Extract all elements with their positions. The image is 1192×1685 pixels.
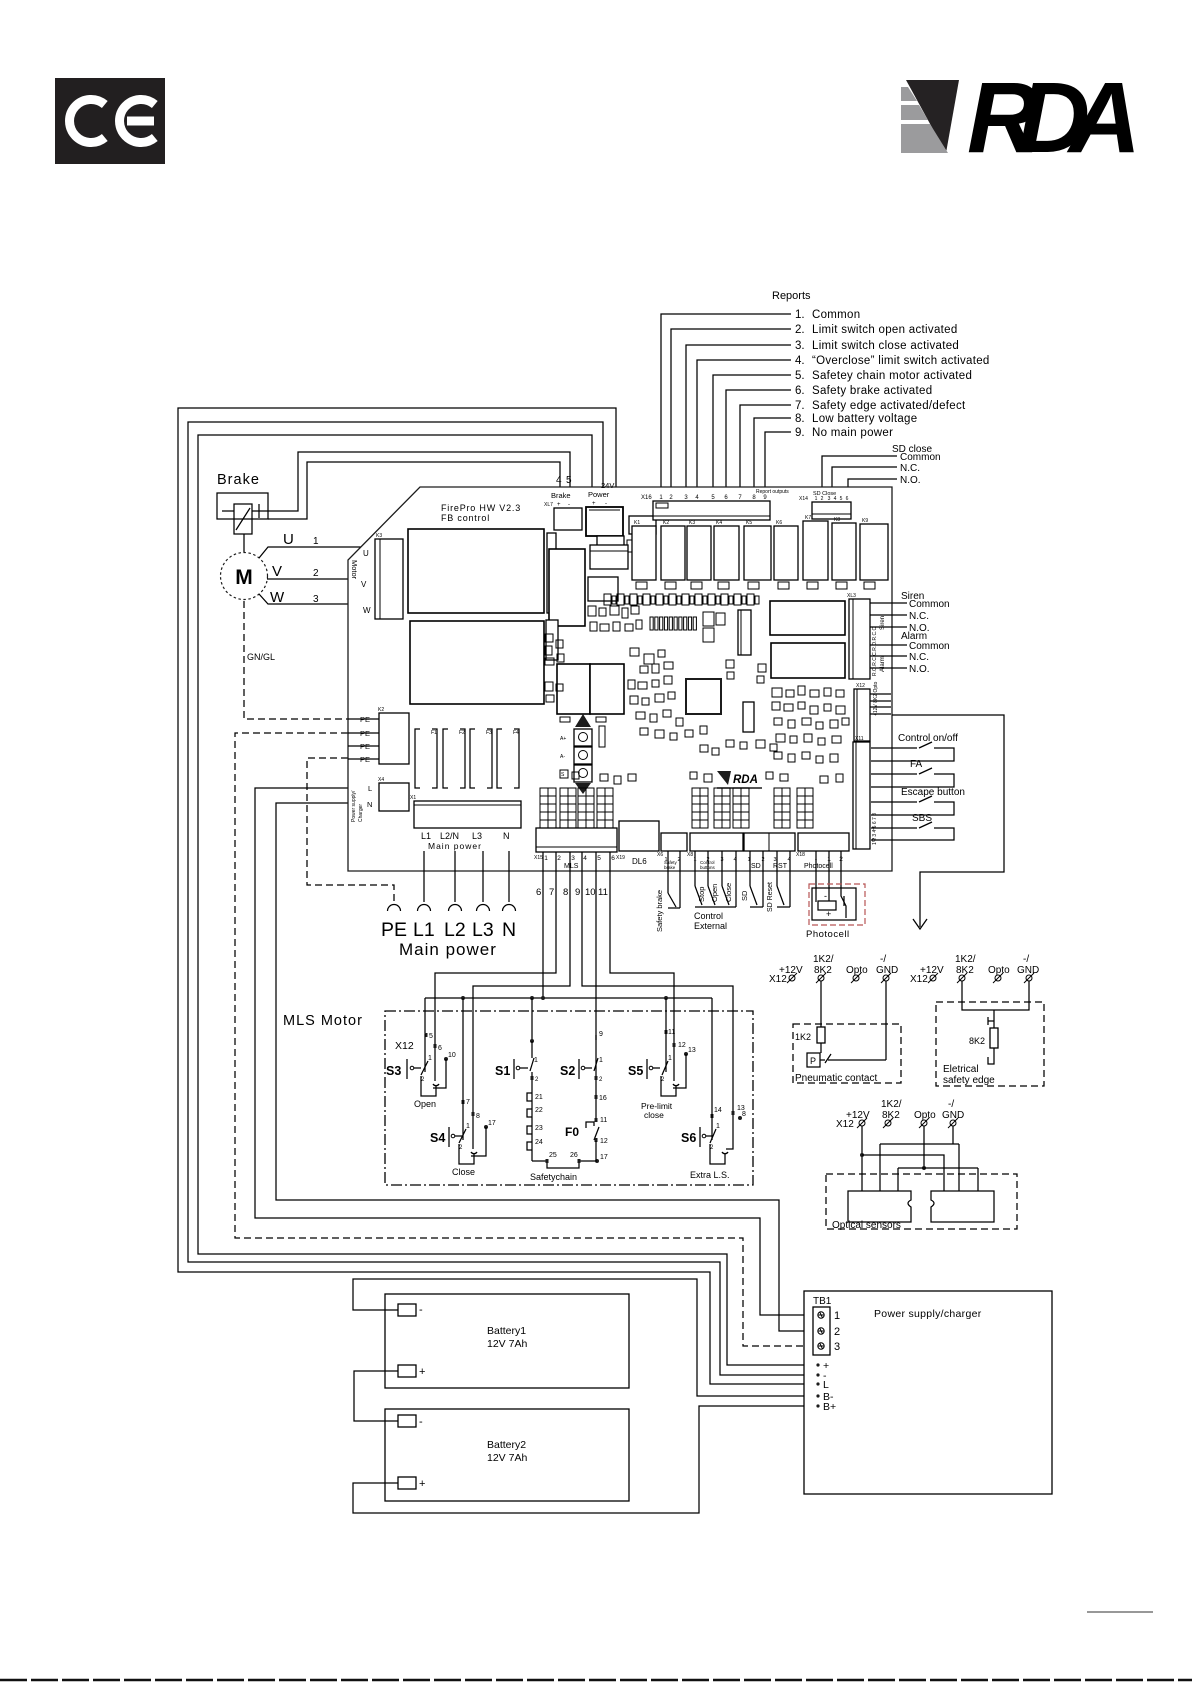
- svg-text:Open: Open: [414, 1099, 436, 1109]
- wire L board to TB1 pin1: [255, 788, 813, 1315]
- svg-text:22: 22: [535, 1107, 543, 1114]
- XL3 connector: [849, 599, 870, 679]
- svg-text:Control on/off: Control on/off: [898, 733, 958, 744]
- pneumatic terminal X12: [789, 975, 795, 981]
- drop to S3 pin10: [462, 998, 464, 1059]
- header J2: [743, 702, 754, 732]
- svg-text:“Overclose” limit switch activ: “Overclose” limit switch activated: [812, 355, 990, 367]
- X12 stub Opto: [870, 706, 891, 708]
- svg-text:9: 9: [599, 1031, 603, 1038]
- transformer T1: [408, 529, 544, 613]
- header ladder strips: [540, 788, 556, 828]
- svg-text:Open: Open: [710, 884, 719, 902]
- svg-text:U: U: [363, 549, 369, 558]
- svg-text:Limit switch open activated: Limit switch open activated: [812, 324, 958, 336]
- photocell relay: [818, 901, 836, 910]
- svg-text:MLS: MLS: [564, 863, 579, 870]
- svg-text:TB1: TB1: [813, 1296, 832, 1307]
- X6 safety brake connector: [661, 833, 687, 851]
- brake to motor link: [243, 534, 245, 553]
- PSU terminal B+: [816, 1404, 819, 1407]
- svg-text:L3: L3: [472, 919, 494, 941]
- svg-text:Power supply/: Power supply/: [351, 790, 357, 822]
- svg-text:K3: K3: [689, 520, 695, 526]
- svg-text:close: close: [644, 1110, 664, 1120]
- svg-text:Common: Common: [812, 309, 860, 321]
- svg-text:2: 2: [834, 1326, 840, 1338]
- CE letter E: [120, 100, 155, 143]
- svg-text:5.: 5.: [795, 370, 805, 382]
- svg-text:1: 1: [544, 855, 548, 862]
- capacitor C12: [546, 620, 558, 660]
- svg-text:X12: X12: [910, 974, 928, 985]
- pneumatic dashed box: [793, 1024, 901, 1083]
- svg-text:X12: X12: [769, 974, 787, 985]
- svg-text:A+: A+: [560, 736, 566, 742]
- junction dot 666: [664, 996, 668, 1000]
- header J1: [738, 610, 751, 655]
- svg-text:2: 2: [313, 568, 319, 579]
- control wire Stop: [694, 851, 696, 886]
- svg-text:Motor: Motor: [350, 560, 359, 580]
- svg-text:11: 11: [668, 1029, 675, 1036]
- button SW2: [574, 747, 592, 764]
- svg-text:1K2: 1K2: [795, 1032, 811, 1042]
- RDA logo gray stripe 3: [901, 124, 948, 153]
- svg-text:S6: S6: [681, 1131, 696, 1145]
- svg-text:9: 9: [575, 887, 580, 898]
- svg-text:K2: K2: [663, 520, 669, 526]
- svg-text:B+: B+: [823, 1401, 836, 1413]
- svg-text:6: 6: [611, 855, 615, 862]
- photocell black box: [812, 888, 856, 920]
- svg-text:XL7: XL7: [544, 502, 553, 508]
- svg-text:L1: L1: [421, 831, 431, 841]
- svg-text:X14: X14: [799, 496, 808, 502]
- svg-text:3: 3: [834, 1341, 840, 1353]
- svg-text:-: -: [824, 891, 827, 901]
- svg-text:2: 2: [421, 1077, 425, 1083]
- capacitor C9: [807, 582, 818, 589]
- relay K5: [744, 526, 771, 580]
- svg-text:12: 12: [600, 1138, 608, 1145]
- TB1 pin 1: [818, 1312, 824, 1318]
- svg-text:GN/GL: GN/GL: [247, 652, 275, 662]
- svg-text:Optical sensors: Optical sensors: [832, 1220, 901, 1231]
- edge terminal Opto: [995, 975, 1001, 981]
- svg-text:X12: X12: [836, 1119, 854, 1130]
- svg-text:8K2: 8K2: [969, 1036, 985, 1046]
- svg-text:Escape button: Escape button: [901, 787, 965, 798]
- optical dashed box: [826, 1174, 1017, 1229]
- RDA logo gray stripe 2: [901, 105, 928, 120]
- svg-text:K9: K9: [862, 518, 868, 524]
- pneumatic wire to GND: [828, 1059, 886, 1061]
- svg-text:V: V: [272, 563, 282, 580]
- svg-text:N: N: [502, 919, 516, 941]
- CE mark box: [55, 78, 165, 164]
- TB1 connector: [813, 1307, 830, 1355]
- svg-text:Safetychain: Safetychain: [530, 1172, 577, 1182]
- svg-text:9.: 9.: [795, 427, 805, 439]
- report item 4. wire: [697, 360, 791, 494]
- relay K3: [687, 526, 711, 580]
- edge terminal 8K2: [959, 975, 965, 981]
- svg-text:-: -: [419, 1304, 423, 1316]
- alarm Common wire: [870, 644, 907, 646]
- battery1 minus wire to B-: [353, 1279, 816, 1396]
- GN/GL earth wire motor to PE1: [244, 601, 348, 719]
- K2 PE connector: [379, 713, 409, 764]
- svg-text:brake: brake: [664, 865, 676, 870]
- relay K12 alarm: [771, 643, 845, 678]
- svg-text:K7: K7: [805, 515, 811, 521]
- svg-text:8: 8: [563, 887, 568, 898]
- svg-text:13: 13: [688, 1047, 696, 1054]
- svg-text:SD Reset: SD Reset: [767, 882, 774, 912]
- IC U3: [588, 577, 618, 601]
- svg-text:1: 1: [834, 1310, 840, 1322]
- report item 2. wire: [671, 329, 791, 494]
- terminal arc 483: [477, 905, 490, 911]
- svg-text:A-: A-: [560, 754, 565, 760]
- svg-text:14: 14: [714, 1107, 722, 1114]
- battery series link: [354, 1371, 398, 1421]
- MLS wire 8: [473, 852, 570, 1112]
- svg-text:Main power: Main power: [428, 841, 482, 851]
- edge wire 8K2: [962, 981, 1029, 1010]
- wire 1 PSU L to 24V power: [178, 408, 816, 1384]
- pneumatic terminal GND: [883, 975, 889, 981]
- junction dot 543: [541, 996, 545, 1000]
- svg-text:Extra L.S.: Extra L.S.: [690, 1170, 730, 1180]
- svg-text:25: 25: [549, 1152, 557, 1159]
- svg-text:10: 10: [585, 887, 596, 898]
- Battery1 minus terminal: [398, 1304, 416, 1316]
- wire V motor: [267, 578, 376, 580]
- fuse F1: [415, 729, 420, 788]
- transformer T2: [410, 621, 544, 704]
- drop to S3 pin5: [424, 998, 426, 1034]
- Battery1 box: [385, 1294, 629, 1388]
- motor connector X5: [375, 539, 403, 619]
- svg-text:Alarm: Alarm: [880, 656, 886, 672]
- svg-text:K4: K4: [716, 520, 722, 526]
- svg-text:6: 6: [438, 1045, 442, 1052]
- wire main power 483: [482, 851, 484, 902]
- svg-text:5: 5: [566, 475, 572, 486]
- svg-text:X1: X1: [410, 795, 416, 801]
- capacitor C1: [597, 536, 624, 554]
- wire 3 PSU plus to 24V power: [198, 435, 816, 1365]
- svg-text:N.C.: N.C.: [900, 463, 920, 474]
- svg-text:DL6: DL6: [632, 857, 647, 866]
- svg-text:2: 2: [535, 1077, 539, 1083]
- terminal arc 424: [418, 905, 431, 911]
- svg-text:Close: Close: [452, 1167, 475, 1177]
- svg-text:-/: -/: [948, 1099, 954, 1110]
- svg-text:Safety edge activated/defect: Safety edge activated/defect: [812, 400, 966, 412]
- svg-text:5: 5: [429, 1033, 433, 1040]
- svg-text:K6: K6: [776, 520, 782, 526]
- svg-text:6.: 6.: [795, 385, 805, 397]
- svg-text:Common: Common: [900, 452, 941, 463]
- svg-text:-/: -/: [1023, 954, 1029, 965]
- edge terminal GND: [1026, 975, 1032, 981]
- optical Opto wire: [923, 1126, 925, 1168]
- svg-text:-: -: [419, 1416, 423, 1428]
- CE letter C: [70, 100, 105, 143]
- svg-text:1: 1: [428, 1055, 432, 1062]
- svg-text:2: 2: [821, 496, 824, 502]
- svg-text:GND: GND: [876, 965, 898, 976]
- svg-text:PE: PE: [360, 729, 370, 738]
- svg-text:1: 1: [815, 496, 818, 502]
- capacitor C2: [629, 516, 656, 534]
- svg-text:-: -: [568, 502, 570, 508]
- report item 6. wire: [726, 390, 791, 494]
- svg-text:N.O.: N.O.: [909, 664, 930, 675]
- svg-text:1.: 1.: [795, 309, 805, 321]
- relay K9: [860, 524, 888, 580]
- capacitor C7: [748, 582, 759, 589]
- svg-text:5: 5: [840, 496, 843, 502]
- svg-text:F2: F2: [459, 730, 465, 736]
- footer small line: [1087, 1611, 1153, 1613]
- svg-text:Photocell: Photocell: [806, 929, 850, 940]
- svg-text:21: 21: [535, 1094, 543, 1101]
- svg-text:P: P: [810, 1056, 816, 1066]
- svg-text:N: N: [367, 800, 372, 809]
- svg-text:FB control: FB control: [441, 513, 490, 523]
- control common wire: [735, 851, 737, 907]
- relay K2: [661, 526, 685, 580]
- svg-text:S2: S2: [560, 1064, 575, 1078]
- Battery2 minus terminal: [398, 1415, 416, 1427]
- junction dot 463: [461, 996, 465, 1000]
- drop to S1: [531, 998, 533, 1040]
- SD close N.C. wire: [832, 467, 897, 501]
- relay K4: [714, 526, 739, 580]
- relay K6: [774, 526, 798, 580]
- RDA logo gray stripe 1: [901, 87, 917, 101]
- svg-text:4: 4: [556, 475, 562, 486]
- PE pin 3: [348, 745, 379, 747]
- PE pin 4: [348, 758, 379, 760]
- svg-text:PE: PE: [360, 755, 370, 764]
- svg-text:Report outputs: Report outputs: [756, 489, 789, 495]
- svg-text:RDA: RDA: [733, 774, 758, 786]
- terminal arc 509: [503, 905, 516, 911]
- transformer T3: [557, 664, 590, 714]
- svg-text:SD: SD: [740, 890, 749, 901]
- svg-text:17: 17: [600, 1154, 608, 1161]
- PSU terminal L: [816, 1382, 819, 1385]
- svg-text:5: 5: [597, 855, 601, 862]
- svg-text:X6: X6: [657, 852, 663, 858]
- svg-text:V: V: [361, 580, 367, 589]
- svg-text:GND: GND: [1017, 965, 1039, 976]
- svg-text:4: 4: [583, 855, 587, 862]
- svg-text:2: 2: [599, 1077, 603, 1083]
- svg-text:F4: F4: [513, 730, 519, 736]
- svg-text:1: 1: [716, 1123, 720, 1130]
- svg-text:+: +: [826, 909, 831, 919]
- svg-text:F1: F1: [431, 730, 437, 736]
- svg-text:S3: S3: [386, 1064, 401, 1078]
- resistor 8K2: [990, 1028, 998, 1048]
- svg-text:8.: 8.: [795, 413, 805, 425]
- svg-text:+: +: [557, 502, 561, 508]
- optical terminal 8K2: [885, 1120, 891, 1126]
- svg-text:N.O.: N.O.: [900, 475, 921, 486]
- svg-text:7: 7: [549, 887, 554, 898]
- svg-text:RST: RST: [773, 863, 788, 870]
- svg-text:L: L: [823, 1379, 829, 1391]
- optical +12V wire: [861, 1126, 863, 1191]
- relay K10: [549, 549, 585, 626]
- svg-text:Brake: Brake: [551, 491, 571, 500]
- svg-text:Opto: Opto: [988, 965, 1010, 976]
- fuse F3: [470, 729, 475, 788]
- svg-text:S5: S5: [628, 1064, 643, 1078]
- svg-text:Common: Common: [909, 599, 950, 610]
- svg-text:7: 7: [466, 1099, 470, 1106]
- edge terminal X12: [930, 975, 936, 981]
- svg-text:3: 3: [571, 855, 575, 862]
- Battery2 plus terminal: [398, 1477, 416, 1489]
- svg-text:24: 24: [535, 1139, 543, 1146]
- optical terminal Opto: [921, 1120, 927, 1126]
- arrow head: [913, 919, 927, 929]
- brake coil left lead: [222, 510, 234, 512]
- capacitor C4: [665, 582, 676, 589]
- component strip: [547, 533, 556, 613]
- svg-text:1: 1: [466, 1123, 470, 1130]
- svg-text:FirePro HW V2.3: FirePro HW V2.3: [441, 503, 521, 513]
- svg-text:X12: X12: [856, 683, 865, 689]
- diode D1: [627, 540, 635, 552]
- svg-text:K2: K2: [378, 707, 384, 713]
- capacitor C5: [691, 582, 702, 589]
- svg-text:L1: L1: [413, 919, 435, 941]
- svg-text:Charger: Charger: [358, 804, 364, 822]
- PCB RDA logo: [717, 771, 731, 785]
- PSU terminal -: [816, 1373, 819, 1376]
- svg-text:4: 4: [834, 496, 837, 502]
- edge dashed box: [936, 1002, 1044, 1086]
- svg-text:Opto: Opto: [914, 1110, 936, 1121]
- svg-text:1K2/: 1K2/: [881, 1099, 902, 1110]
- optical terminal GND: [950, 1120, 956, 1126]
- sensor bundle outline: [892, 715, 1004, 927]
- photocell wire 2: [841, 851, 846, 918]
- capacitor C20: [560, 717, 570, 722]
- svg-text:1: 1: [534, 1057, 538, 1064]
- svg-text:X15: X15: [534, 855, 543, 861]
- SD switch: [749, 851, 751, 886]
- capacitor C10: [836, 582, 847, 589]
- Battery1 plus terminal: [398, 1365, 416, 1377]
- wire 4 brake to board: [252, 452, 570, 511]
- relay K1: [632, 526, 656, 580]
- drop to S6: [711, 998, 713, 1114]
- control wire Close: [721, 851, 723, 886]
- capacitor C6: [718, 582, 729, 589]
- button up arrow: [575, 714, 591, 727]
- svg-text:4.: 4.: [795, 355, 805, 367]
- svg-text:23: 23: [535, 1125, 543, 1132]
- safety chain bottom: [532, 1161, 597, 1168]
- TB1 pin 2: [818, 1328, 824, 1334]
- svg-text:17: 17: [488, 1120, 496, 1127]
- svg-text:X11: X11: [855, 736, 864, 742]
- transformer T4: [590, 664, 624, 714]
- Control on/off circuit: [871, 747, 917, 749]
- motor M circle: [221, 553, 268, 600]
- brake solenoid: [234, 504, 252, 534]
- PE pin 1: [348, 718, 379, 720]
- svg-text:U: U: [283, 531, 294, 548]
- PCB small components: [604, 594, 611, 605]
- svg-text:Safety brake activated: Safety brake activated: [812, 385, 932, 397]
- siren N.O. wire: [870, 626, 907, 628]
- pneumatic wire 8K2: [820, 981, 822, 1027]
- svg-text:W: W: [270, 589, 285, 606]
- resistor 1K2: [817, 1027, 825, 1043]
- svg-text:K5: K5: [746, 520, 752, 526]
- svg-text:N.C.: N.C.: [909, 652, 929, 663]
- svg-text:S4: S4: [430, 1131, 445, 1145]
- svg-text:12V 7Ah: 12V 7Ah: [487, 1338, 527, 1350]
- MLS wire 11: [610, 852, 674, 1043]
- svg-text:Reports: Reports: [772, 290, 811, 302]
- svg-text:3: 3: [313, 594, 319, 605]
- svg-text:24V: 24V: [601, 481, 614, 490]
- svg-text:X4: X4: [378, 777, 384, 783]
- svg-text:Safetey chain motor activated: Safetey chain motor activated: [812, 370, 972, 382]
- svg-text:+: +: [419, 1366, 425, 1378]
- button SW3: [574, 765, 592, 782]
- wire 5 brake to board: [268, 462, 560, 519]
- X1 main power connector: [414, 801, 521, 828]
- svg-text:6: 6: [846, 496, 849, 502]
- button down arrow: [575, 783, 591, 794]
- pneumatic wire GND: [885, 981, 887, 1060]
- Escape button circuit: [871, 801, 917, 803]
- svg-text:Power: Power: [588, 490, 610, 499]
- svg-text:Stop: Stop: [697, 887, 706, 902]
- wire main power 509: [508, 851, 510, 902]
- svg-text:Main power: Main power: [399, 940, 497, 959]
- X12 stub GND: [870, 713, 891, 715]
- svg-text:+12V 8K2 Opto: +12V 8K2 Opto: [873, 681, 879, 716]
- optical sensor left: [848, 1191, 911, 1222]
- svg-text:1K2/: 1K2/: [955, 954, 976, 965]
- photocell red box: [809, 884, 865, 925]
- control wire Open: [707, 851, 709, 886]
- svg-text:GND: GND: [942, 1110, 964, 1121]
- svg-text:6: 6: [536, 887, 541, 898]
- capacitor C11: [864, 582, 875, 589]
- optical terminal X12: [859, 1120, 865, 1126]
- svg-text:Close: Close: [724, 883, 733, 902]
- MLS wire 7: [435, 852, 556, 1044]
- report item 3. wire: [686, 345, 791, 494]
- pneumatic contact blade: [820, 1059, 825, 1061]
- svg-text:3.: 3.: [795, 340, 805, 352]
- svg-text:1: 1: [599, 1057, 603, 1064]
